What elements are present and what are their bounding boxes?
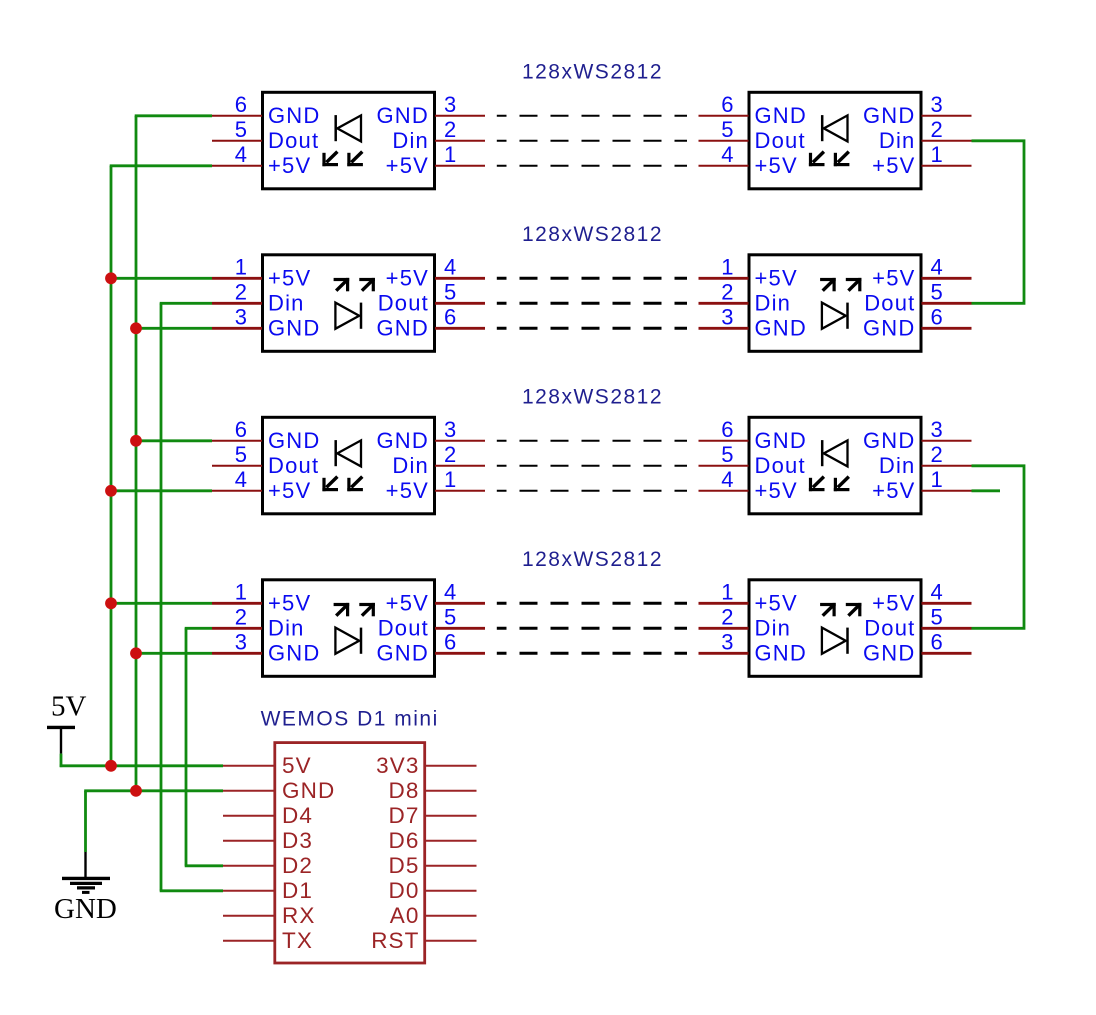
U5 pin 5 (Dout) left stub bbox=[212, 442, 319, 478]
wire: GND vertical rail bbox=[135, 116, 138, 791]
U6 pin 4 (+5V) left stub bbox=[699, 467, 798, 503]
ground GND bbox=[54, 791, 117, 925]
LED emission arrow 2 (pointing down-left) bbox=[834, 477, 850, 492]
wire: U5 GND(6) horizontal bbox=[135, 439, 212, 442]
svg-text:3: 3 bbox=[444, 417, 456, 442]
svg-text:4: 4 bbox=[721, 467, 733, 492]
U1 pin 6 (GND) left stub bbox=[212, 92, 321, 128]
svg-text:GND: GND bbox=[377, 428, 430, 453]
LED emission arrow 2 (pointing up-right) bbox=[846, 603, 862, 616]
svg-text:GND: GND bbox=[863, 428, 916, 453]
LED emission arrow 1 (pointing down-left) bbox=[322, 477, 338, 492]
U8 pin 1 (+5V) left stub bbox=[699, 579, 798, 615]
junction C bbox=[130, 435, 142, 447]
svg-text:4: 4 bbox=[235, 467, 247, 492]
dashed continuation wire row1 line3 bbox=[497, 165, 687, 167]
LED emission arrow 2 (pointing up-right) bbox=[359, 603, 375, 616]
LED symbol (triangle) bbox=[824, 115, 848, 141]
LED emission arrow 1 (pointing up-right) bbox=[334, 603, 350, 616]
LED strip U3 (128xWS2812) bbox=[212, 254, 485, 351]
svg-text:1: 1 bbox=[721, 579, 733, 604]
svg-text:Dout: Dout bbox=[864, 290, 915, 315]
U8 pin 5 (Dout) right stub bbox=[864, 604, 971, 640]
LED emission arrow 2 (pointing down-left) bbox=[347, 152, 363, 167]
U2 body bbox=[749, 92, 921, 189]
svg-text:+5V: +5V bbox=[268, 478, 311, 503]
microcontroller U9 (WEMOS D1 mini) bbox=[223, 743, 477, 963]
svg-text:+5V: +5V bbox=[755, 265, 798, 290]
svg-text:128xWS2812: 128xWS2812 bbox=[522, 61, 663, 84]
U3 pin 3 (GND) left stub bbox=[212, 304, 321, 340]
junction E bbox=[105, 597, 117, 609]
U4 pin 1 (+5V) left stub bbox=[699, 254, 798, 290]
svg-text:+5V: +5V bbox=[268, 265, 311, 290]
U9 pin RST (right) bbox=[371, 928, 476, 953]
svg-text:+5V: +5V bbox=[386, 478, 429, 503]
dashed continuation wire row2 line3 bbox=[497, 327, 687, 330]
LED strip U8 (128xWS2812) bbox=[699, 579, 972, 676]
svg-text:1: 1 bbox=[931, 467, 943, 492]
svg-text:5: 5 bbox=[444, 279, 456, 304]
U8 pin 6 (GND) right stub bbox=[863, 629, 972, 665]
wire: U7 Din(2) horizontal bbox=[185, 627, 212, 630]
svg-text:3: 3 bbox=[721, 629, 733, 654]
svg-text:4: 4 bbox=[931, 254, 943, 279]
U1 pin 2 (Din) right stub bbox=[392, 117, 485, 153]
svg-text:+5V: +5V bbox=[755, 153, 798, 178]
svg-text:GND: GND bbox=[268, 428, 321, 453]
U7 pin 5 (Dout) right stub bbox=[378, 604, 485, 640]
svg-text:GND: GND bbox=[863, 315, 916, 340]
svg-text:Din: Din bbox=[268, 290, 305, 315]
U9 pin A0 (right) bbox=[390, 903, 477, 928]
svg-text:D6: D6 bbox=[389, 828, 420, 853]
LED symbol (cathode bar) bbox=[846, 303, 849, 329]
U9 pin D8 (right) bbox=[389, 778, 477, 803]
wire: U2 Din(2) to U4 Dout(5) bbox=[972, 141, 1025, 303]
svg-text:D3: D3 bbox=[282, 828, 313, 853]
U7 pin 3 (GND) left stub bbox=[212, 629, 321, 665]
wire: 5V to WEMOS 5V horizontal bbox=[60, 764, 223, 767]
LED emission arrow 1 (pointing up-right) bbox=[820, 603, 836, 616]
svg-text:D8: D8 bbox=[389, 778, 420, 803]
U9 pin 3V3 (right) bbox=[376, 753, 476, 778]
svg-text:Dout: Dout bbox=[755, 453, 806, 478]
U9 pin D2 (left) bbox=[223, 853, 313, 878]
svg-text:5: 5 bbox=[235, 442, 247, 467]
wire: GND to WEMOS GND horizontal bbox=[84, 789, 223, 792]
U9 pin 5V (left) bbox=[223, 753, 312, 778]
svg-text:3: 3 bbox=[235, 304, 247, 329]
U6 pin 1 (+5V) right stub bbox=[872, 467, 971, 503]
U8 body bbox=[749, 580, 921, 677]
svg-text:D1: D1 bbox=[282, 878, 313, 903]
U6 body bbox=[749, 417, 921, 514]
U9 pin D0 (right) bbox=[389, 878, 477, 903]
svg-text:3: 3 bbox=[931, 92, 943, 117]
svg-text:4: 4 bbox=[931, 579, 943, 604]
svg-text:GND: GND bbox=[268, 640, 321, 665]
LED strip U7 (128xWS2812) bbox=[212, 579, 485, 676]
LED emission arrow 1 (pointing up-right) bbox=[334, 278, 350, 291]
dashed continuation wire row2 line1 bbox=[497, 277, 687, 280]
U9 pin D6 (right) bbox=[389, 828, 477, 853]
svg-text:D0: D0 bbox=[389, 878, 420, 903]
svg-text:6: 6 bbox=[235, 417, 247, 442]
svg-text:+5V: +5V bbox=[268, 153, 311, 178]
svg-text:6: 6 bbox=[721, 92, 733, 117]
svg-text:+5V: +5V bbox=[872, 590, 915, 615]
junction D bbox=[105, 485, 117, 497]
wire: U3 GND(3) horizontal bbox=[135, 327, 212, 330]
svg-text:1: 1 bbox=[931, 142, 943, 167]
svg-text:GND: GND bbox=[863, 103, 916, 128]
svg-text:+5V: +5V bbox=[268, 590, 311, 615]
svg-text:1: 1 bbox=[235, 579, 247, 604]
dashed continuation wire row2 line2 bbox=[497, 302, 687, 305]
svg-text:2: 2 bbox=[444, 442, 456, 467]
U8 pin 3 (GND) left stub bbox=[699, 629, 808, 665]
LED emission arrow 2 (pointing down-left) bbox=[347, 477, 363, 492]
LED symbol (cathode bar) bbox=[360, 628, 363, 654]
U5 pin 1 (+5V) right stub bbox=[386, 467, 485, 503]
dashed continuation wire row1 line2 bbox=[497, 140, 687, 142]
U1 pin 5 (Dout) left stub bbox=[212, 117, 319, 153]
svg-text:GND: GND bbox=[268, 315, 321, 340]
svg-text:Din: Din bbox=[755, 290, 792, 315]
wire: U6 Din(2) to U8 Dout(5) bbox=[972, 466, 1025, 629]
dashed continuation wire row4 line2 bbox=[497, 627, 687, 630]
LED symbol (cathode bar) bbox=[821, 440, 824, 466]
U4 pin 2 (Din) left stub bbox=[699, 279, 792, 315]
wire: U3 Din(2) horizontal bbox=[160, 302, 212, 305]
junction A bbox=[105, 272, 117, 284]
U5 body bbox=[263, 417, 435, 514]
U4 pin 4 (+5V) right stub bbox=[872, 254, 971, 290]
wire: U7 +5V(1) horizontal bbox=[110, 602, 212, 605]
svg-text:2: 2 bbox=[931, 117, 943, 142]
svg-text:Dout: Dout bbox=[755, 128, 806, 153]
svg-text:D7: D7 bbox=[389, 803, 420, 828]
LED symbol (triangle) bbox=[337, 440, 361, 466]
LED symbol (triangle) bbox=[337, 115, 361, 141]
svg-text:Din: Din bbox=[392, 453, 429, 478]
U6 pin 5 (Dout) left stub bbox=[699, 442, 806, 478]
svg-text:5: 5 bbox=[931, 279, 943, 304]
U2 pin 6 (GND) left stub bbox=[699, 92, 808, 128]
LED symbol (cathode bar) bbox=[360, 303, 363, 329]
svg-text:1: 1 bbox=[721, 254, 733, 279]
svg-text:Din: Din bbox=[879, 453, 916, 478]
U9 pin D1 (left) bbox=[223, 878, 313, 903]
svg-text:Dout: Dout bbox=[268, 453, 319, 478]
junction F bbox=[130, 647, 142, 659]
dashed continuation wire row1 line1 bbox=[497, 115, 687, 117]
svg-text:Din: Din bbox=[755, 615, 792, 640]
svg-text:5V: 5V bbox=[282, 753, 312, 778]
U5 pin 4 (+5V) left stub bbox=[212, 467, 311, 503]
U2 pin 3 (GND) right stub bbox=[863, 92, 972, 128]
LED emission arrow 1 (pointing down-left) bbox=[809, 477, 825, 492]
U3 body bbox=[263, 255, 435, 351]
svg-text:GND: GND bbox=[54, 893, 117, 925]
U4 pin 6 (GND) right stub bbox=[863, 304, 972, 340]
U9 pin RX (left) bbox=[223, 903, 315, 928]
U9 pin GND (left) bbox=[223, 778, 335, 803]
U6 pin 2 (Din) right stub bbox=[879, 442, 972, 478]
svg-text:1: 1 bbox=[444, 142, 456, 167]
U1 pin 3 (GND) right stub bbox=[377, 92, 486, 128]
U1 pin 1 (+5V) right stub bbox=[386, 142, 485, 178]
svg-text:GND: GND bbox=[755, 640, 808, 665]
U9 pin D4 (left) bbox=[223, 803, 313, 828]
svg-text:GND: GND bbox=[863, 640, 916, 665]
svg-text:3V3: 3V3 bbox=[376, 753, 419, 778]
wire: U1 GND(6) horizontal bbox=[135, 114, 212, 117]
svg-text:+5V: +5V bbox=[755, 590, 798, 615]
U7 pin 4 (+5V) right stub bbox=[386, 579, 485, 615]
LED strip U5 (128xWS2812) bbox=[212, 417, 485, 514]
svg-text:GND: GND bbox=[377, 640, 430, 665]
svg-text:5: 5 bbox=[721, 117, 733, 142]
LED emission arrow 1 (pointing down-left) bbox=[809, 152, 825, 167]
LED symbol (triangle) bbox=[335, 628, 359, 654]
U1 body bbox=[263, 92, 435, 189]
LED symbol (triangle) bbox=[822, 628, 846, 654]
LED strip U2 (128xWS2812) bbox=[699, 92, 972, 189]
svg-text:A0: A0 bbox=[390, 903, 420, 928]
svg-text:4: 4 bbox=[444, 254, 456, 279]
svg-text:+5V: +5V bbox=[872, 265, 915, 290]
power flag 5V bbox=[47, 691, 87, 768]
svg-text:5: 5 bbox=[235, 117, 247, 142]
svg-text:Dout: Dout bbox=[864, 615, 915, 640]
LED emission arrow 2 (pointing up-right) bbox=[359, 278, 375, 291]
LED emission arrow 1 (pointing up-right) bbox=[820, 278, 836, 291]
svg-text:GND: GND bbox=[282, 778, 335, 803]
U2 pin 4 (+5V) left stub bbox=[699, 142, 798, 178]
svg-text:5V: 5V bbox=[51, 691, 87, 723]
U9 body bbox=[275, 743, 425, 963]
svg-text:Dout: Dout bbox=[268, 128, 319, 153]
U2 pin 1 (+5V) right stub bbox=[872, 142, 971, 178]
svg-text:6: 6 bbox=[235, 92, 247, 117]
wire: U7 Din to D2 vertical bbox=[185, 628, 188, 866]
svg-text:4: 4 bbox=[721, 142, 733, 167]
dashed continuation wire row3 line1 bbox=[497, 440, 687, 442]
svg-text:+5V: +5V bbox=[386, 590, 429, 615]
svg-text:GND: GND bbox=[377, 315, 430, 340]
svg-text:3: 3 bbox=[235, 629, 247, 654]
wire: U5 +5V(4) horizontal bbox=[110, 489, 212, 492]
svg-text:2: 2 bbox=[235, 279, 247, 304]
svg-text:128xWS2812: 128xWS2812 bbox=[522, 223, 663, 246]
svg-text:2: 2 bbox=[931, 442, 943, 467]
svg-text:Dout: Dout bbox=[378, 290, 429, 315]
junction G bbox=[105, 760, 117, 772]
U4 pin 5 (Dout) right stub bbox=[864, 279, 971, 315]
svg-text:4: 4 bbox=[444, 579, 456, 604]
U9 pin D7 (right) bbox=[389, 803, 477, 828]
svg-text:128xWS2812: 128xWS2812 bbox=[522, 548, 663, 571]
svg-text:GND: GND bbox=[268, 103, 321, 128]
dashed continuation wire row4 line3 bbox=[497, 652, 687, 655]
LED symbol (cathode bar) bbox=[334, 440, 337, 466]
LED emission arrow 2 (pointing down-left) bbox=[834, 152, 850, 167]
svg-text:D5: D5 bbox=[389, 853, 420, 878]
U9 pin D5 (right) bbox=[389, 853, 477, 878]
U7 pin 6 (GND) right stub bbox=[377, 629, 486, 665]
LED symbol (triangle) bbox=[824, 440, 848, 466]
dashed continuation wire row4 line1 bbox=[497, 602, 687, 605]
svg-text:5: 5 bbox=[444, 604, 456, 629]
wire: U3 Din to D1 vertical bbox=[160, 303, 163, 891]
svg-text:GND: GND bbox=[755, 103, 808, 128]
LED emission arrow 1 (pointing down-left) bbox=[322, 152, 338, 167]
svg-text:+5V: +5V bbox=[386, 153, 429, 178]
svg-text:6: 6 bbox=[721, 417, 733, 442]
svg-text:Din: Din bbox=[879, 128, 916, 153]
U3 pin 5 (Dout) right stub bbox=[378, 279, 485, 315]
wire: U3 +5V(1) horizontal bbox=[110, 277, 212, 280]
U7 body bbox=[263, 580, 435, 677]
U2 pin 2 (Din) right stub bbox=[879, 117, 972, 153]
U1 pin 4 (+5V) left stub bbox=[212, 142, 311, 178]
svg-text:2: 2 bbox=[721, 279, 733, 304]
svg-text:6: 6 bbox=[444, 304, 456, 329]
svg-text:5: 5 bbox=[931, 604, 943, 629]
LED strip U6 (128xWS2812) bbox=[699, 417, 972, 514]
LED symbol (triangle) bbox=[335, 303, 359, 329]
LED symbol (triangle) bbox=[822, 303, 846, 329]
junction H bbox=[130, 785, 142, 797]
junction B bbox=[130, 322, 142, 334]
svg-text:RX: RX bbox=[282, 903, 315, 928]
U2 pin 5 (Dout) left stub bbox=[699, 117, 806, 153]
wire: to WEMOS D2 horizontal bbox=[185, 864, 223, 867]
svg-text:GND: GND bbox=[377, 103, 430, 128]
U3 pin 4 (+5V) right stub bbox=[386, 254, 485, 290]
svg-text:3: 3 bbox=[931, 417, 943, 442]
wire: dangling +5V stub at U6 pin 1 bbox=[972, 489, 1001, 492]
U5 pin 6 (GND) left stub bbox=[212, 417, 321, 453]
U5 pin 3 (GND) right stub bbox=[377, 417, 486, 453]
svg-text:2: 2 bbox=[721, 604, 733, 629]
svg-text:6: 6 bbox=[931, 629, 943, 654]
U4 body bbox=[749, 255, 921, 351]
dashed continuation wire row3 line3 bbox=[497, 490, 687, 492]
svg-text:5: 5 bbox=[721, 442, 733, 467]
U8 pin 4 (+5V) right stub bbox=[872, 579, 971, 615]
svg-text:3: 3 bbox=[444, 92, 456, 117]
svg-text:1: 1 bbox=[235, 254, 247, 279]
U3 pin 6 (GND) right stub bbox=[377, 304, 486, 340]
U6 pin 6 (GND) left stub bbox=[699, 417, 808, 453]
svg-text:D2: D2 bbox=[282, 853, 313, 878]
svg-text:+5V: +5V bbox=[755, 478, 798, 503]
svg-text:2: 2 bbox=[235, 604, 247, 629]
svg-text:D4: D4 bbox=[282, 803, 313, 828]
svg-text:GND: GND bbox=[755, 428, 808, 453]
wire: to WEMOS D1 horizontal bbox=[160, 889, 223, 892]
wire: U1 +5V(4) horizontal bbox=[110, 164, 212, 167]
svg-text:Dout: Dout bbox=[378, 615, 429, 640]
LED symbol (cathode bar) bbox=[821, 115, 824, 141]
wire: +5V vertical rail bbox=[110, 166, 113, 766]
svg-text:6: 6 bbox=[444, 629, 456, 654]
LED strip U4 (128xWS2812) bbox=[699, 254, 972, 351]
LED strip U1 (128xWS2812) bbox=[212, 92, 485, 189]
svg-text:2: 2 bbox=[444, 117, 456, 142]
svg-text:128xWS2812: 128xWS2812 bbox=[522, 386, 663, 409]
svg-text:3: 3 bbox=[721, 304, 733, 329]
svg-text:GND: GND bbox=[755, 315, 808, 340]
svg-text:TX: TX bbox=[282, 928, 313, 953]
U4 pin 3 (GND) left stub bbox=[699, 304, 808, 340]
svg-text:WEMOS D1 mini: WEMOS D1 mini bbox=[261, 708, 439, 731]
LED symbol (cathode bar) bbox=[846, 628, 849, 654]
U9 pin TX (left) bbox=[223, 928, 313, 953]
U8 pin 2 (Din) left stub bbox=[699, 604, 792, 640]
svg-text:RST: RST bbox=[371, 928, 419, 953]
svg-text:+5V: +5V bbox=[386, 265, 429, 290]
U3 pin 1 (+5V) left stub bbox=[212, 254, 311, 290]
LED symbol (cathode bar) bbox=[334, 115, 337, 141]
svg-text:+5V: +5V bbox=[872, 153, 915, 178]
LED emission arrow 2 (pointing up-right) bbox=[846, 278, 862, 291]
U7 pin 1 (+5V) left stub bbox=[212, 579, 311, 615]
U6 pin 3 (GND) right stub bbox=[863, 417, 972, 453]
svg-text:4: 4 bbox=[235, 142, 247, 167]
U9 pin D3 (left) bbox=[223, 828, 313, 853]
svg-text:1: 1 bbox=[444, 467, 456, 492]
svg-text:Din: Din bbox=[268, 615, 305, 640]
wire: U7 GND(3) horizontal bbox=[135, 652, 212, 655]
svg-text:+5V: +5V bbox=[872, 478, 915, 503]
dashed continuation wire row3 line2 bbox=[497, 465, 687, 467]
U5 pin 2 (Din) right stub bbox=[392, 442, 485, 478]
svg-text:Din: Din bbox=[392, 128, 429, 153]
U7 pin 2 (Din) left stub bbox=[212, 604, 305, 640]
svg-text:6: 6 bbox=[931, 304, 943, 329]
U3 pin 2 (Din) left stub bbox=[212, 279, 305, 315]
